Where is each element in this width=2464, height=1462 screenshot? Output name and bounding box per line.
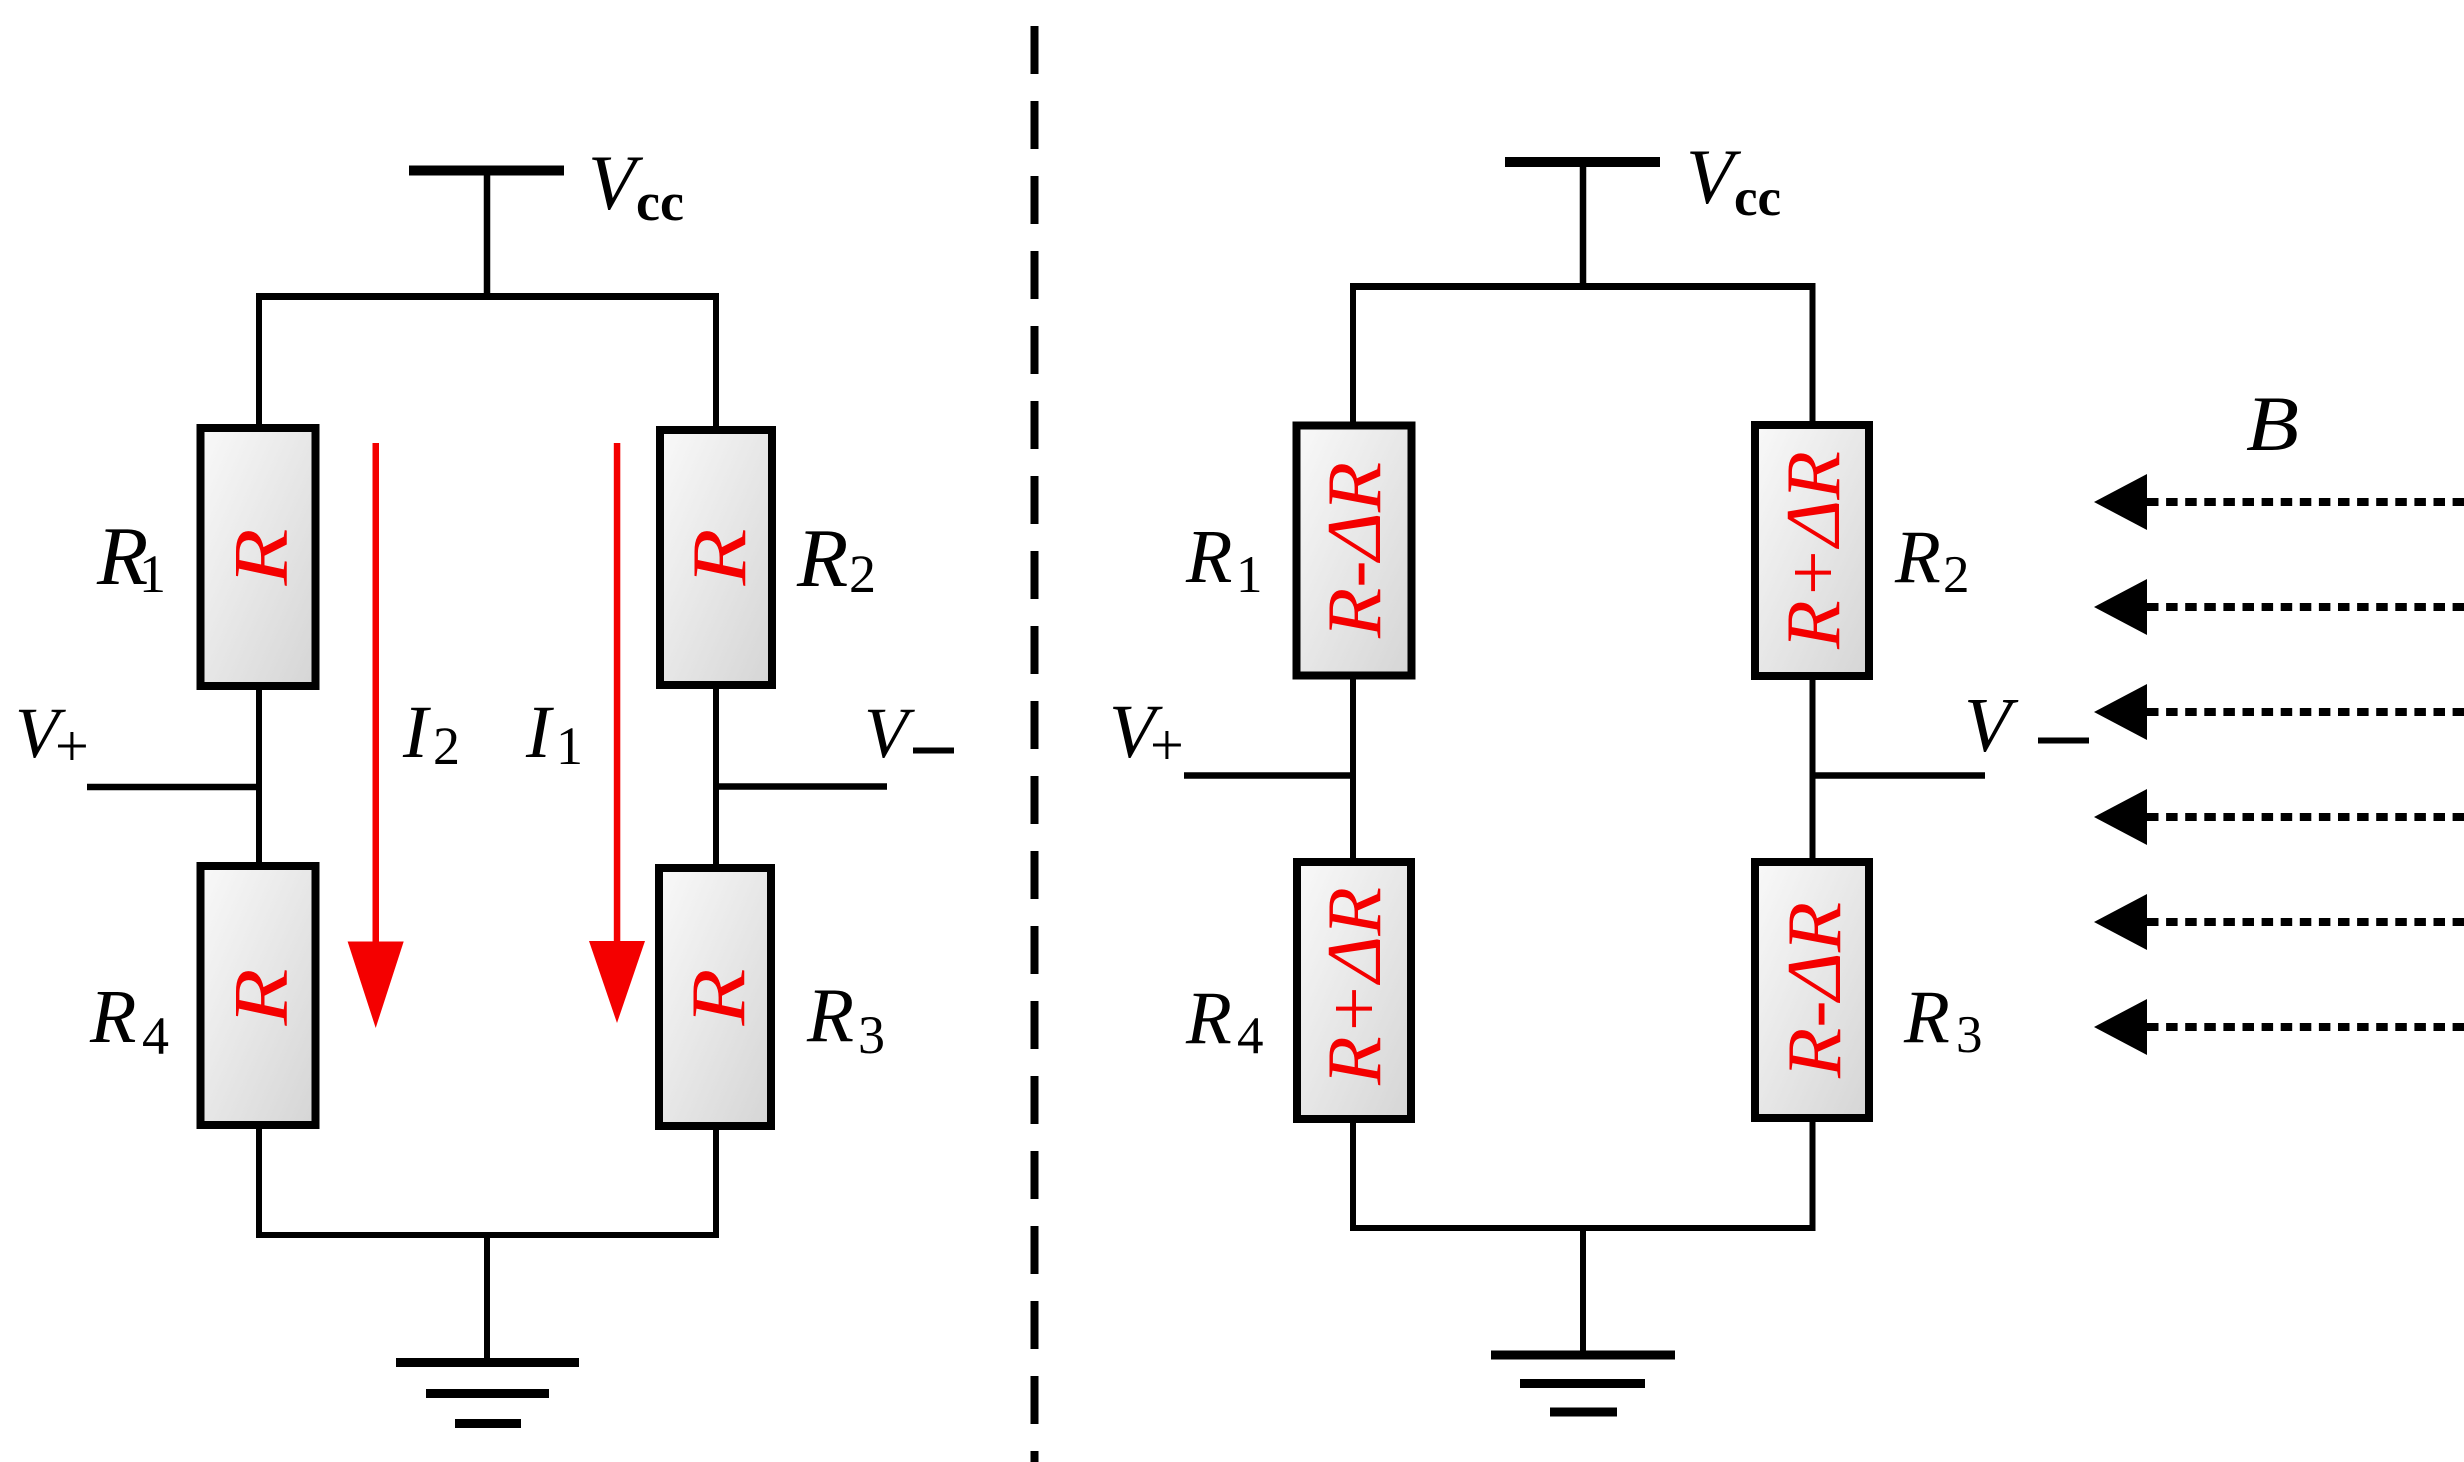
svg-text:R: R [1903, 976, 1950, 1059]
svg-text:2: 2 [433, 716, 460, 776]
svg-text:V: V [1964, 682, 2019, 768]
svg-text:R-ΔR: R-ΔR [1771, 902, 1857, 1079]
svg-text:2: 2 [849, 544, 876, 604]
svg-text:4: 4 [1237, 1007, 1264, 1065]
svg-text:R+ΔR: R+ΔR [1311, 887, 1397, 1086]
svg-text:+: + [1150, 712, 1184, 778]
svg-text:1: 1 [556, 716, 583, 776]
svg-text:R: R [796, 512, 848, 605]
svg-text:1: 1 [1236, 546, 1263, 604]
svg-text:R: R [89, 975, 136, 1059]
svg-text:R: R [675, 969, 761, 1027]
svg-text:B: B [2246, 380, 2299, 467]
svg-text:R: R [806, 972, 854, 1058]
svg-text:cc: cc [636, 172, 684, 232]
svg-text:3: 3 [1956, 1006, 1983, 1064]
svg-text:2: 2 [1943, 546, 1970, 604]
svg-text:1: 1 [139, 544, 166, 604]
svg-text:cc: cc [1734, 169, 1781, 227]
svg-text:I: I [402, 691, 431, 774]
svg-text:R: R [1185, 977, 1232, 1060]
svg-text:R: R [676, 529, 762, 587]
svg-text:R: R [1185, 515, 1232, 599]
svg-text:R-ΔR: R-ΔR [1311, 462, 1397, 639]
svg-text:+: + [55, 713, 89, 779]
svg-text:R: R [218, 529, 304, 587]
svg-text:R: R [218, 969, 304, 1027]
svg-text:3: 3 [858, 1005, 885, 1065]
svg-text:R: R [1894, 516, 1941, 599]
svg-text:V: V [864, 693, 915, 773]
svg-text:I: I [525, 691, 554, 774]
svg-text:R+ΔR: R+ΔR [1770, 451, 1856, 650]
svg-text:4: 4 [142, 1006, 169, 1066]
